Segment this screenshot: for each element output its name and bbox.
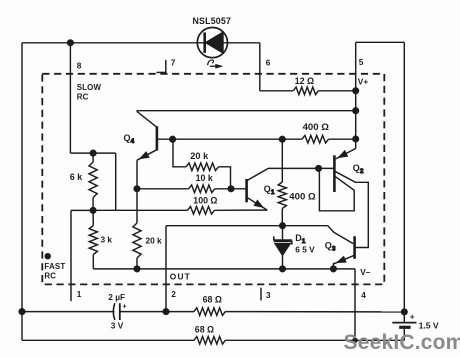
label 12 ohm (295, 76, 314, 86)
node bottom left (19, 309, 25, 315)
wire Q4 base rail (157, 138, 356, 140)
watermark SeekIC.com (344, 331, 460, 354)
svg-text:20 k: 20 k (190, 151, 209, 161)
node Q4 base 20k tap (170, 136, 176, 142)
wire bottom 2 (22, 339, 404, 341)
wire pin8 horizontal (70, 152, 115, 154)
svg-text:100 Ω: 100 Ω (193, 195, 217, 205)
wire top rail (22, 42, 260, 44)
resistor 400 ohm vertical (278, 139, 286, 226)
resistor 20k horizontal (173, 139, 231, 189)
resistor 12 ohm (260, 87, 356, 95)
node D1 top (279, 223, 285, 229)
svg-text:RC: RC (77, 92, 89, 101)
node 400ohm vertical top (279, 136, 285, 142)
label 20k horizontal (190, 151, 209, 161)
label 10k (196, 173, 213, 183)
wire bottom 1 right (225, 311, 404, 313)
transistor Q4 (137, 111, 157, 160)
svg-text:OUT: OUT (170, 271, 191, 281)
svg-text:D1: D1 (295, 233, 306, 245)
label 1.5 V (419, 320, 439, 330)
label 100 ohm (193, 195, 217, 205)
node 6k bottom fast-rc (90, 207, 96, 213)
svg-text:3 k: 3 k (101, 234, 113, 244)
battery 1.5V (392, 312, 416, 340)
node 6k top (90, 150, 96, 156)
wire left rail (21, 43, 23, 341)
svg-text:5: 5 (359, 57, 364, 67)
pin 3 stub (260, 288, 262, 301)
node 20k bottom (134, 266, 140, 272)
label pin 4 (361, 290, 366, 300)
label 6.5 V (295, 244, 315, 254)
svg-text:V+: V+ (358, 77, 369, 87)
label pin 1 (77, 289, 82, 299)
svg-text:3 V: 3 V (111, 320, 124, 330)
wire Q4 collector to V+ (137, 110, 356, 112)
wire Q1 collector to Q2 base (268, 167, 334, 169)
transistor Q1 (247, 169, 268, 211)
label pin 7 (171, 58, 176, 68)
label 6k (70, 172, 84, 182)
wire Q2 collector-1 loop (319, 168, 354, 210)
wire right rail (403, 42, 405, 312)
svg-text:8: 8 (77, 61, 82, 71)
wire bottom 1 mid (120, 311, 194, 313)
svg-text:RC: RC (44, 271, 56, 280)
wire out vertical pin 2 (165, 226, 167, 312)
label D1 (295, 233, 306, 245)
label 400 ohm vertical (289, 191, 316, 202)
svg-text:1: 1 (77, 289, 82, 299)
wire Q2 collector-2 to Q3 collector (335, 171, 368, 247)
label Q3 (325, 241, 336, 253)
resistor 68 ohm upper (194, 308, 225, 316)
resistor 6k (89, 153, 97, 210)
svg-text:SLOW: SLOW (77, 83, 102, 92)
label OUT (170, 271, 191, 281)
svg-text:2 µF: 2 µF (108, 292, 125, 302)
svg-text:SeekIC.com: SeekIC.com (344, 331, 460, 354)
svg-text:6: 6 (266, 58, 271, 68)
transistor Q2 (334, 149, 355, 193)
node 10k tap (134, 186, 140, 192)
svg-text:1.5 V: 1.5 V (419, 320, 439, 330)
label Q4 (124, 133, 135, 145)
label 3k (101, 234, 113, 244)
wire bottom 1 left (22, 311, 114, 313)
wire V- rail (93, 268, 355, 270)
pin 8 wire (69, 43, 71, 153)
node Q3 emitter (330, 266, 336, 272)
svg-text:20 k: 20 k (146, 235, 163, 245)
svg-text:+: + (410, 312, 415, 321)
svg-text:V–: V– (360, 267, 371, 277)
label pin 6 (266, 58, 271, 68)
resistor 100 ohm (93, 207, 267, 215)
node V+ 400ohm (353, 136, 359, 142)
node battery plus (401, 309, 407, 315)
resistor 10k (137, 185, 247, 193)
FAST RC bullet (45, 254, 50, 259)
label NSL5057 (193, 16, 232, 26)
svg-text:68 Ω: 68 Ω (195, 325, 214, 335)
label pin 3 (266, 290, 271, 300)
node Q2 base (316, 165, 322, 171)
svg-text:3: 3 (266, 290, 271, 300)
label 68 ohm upper (203, 295, 222, 305)
node Q1 base (228, 186, 234, 192)
transistor Q3 (328, 226, 355, 269)
wire V+ rail vertical (355, 42, 357, 148)
label 20k vertical (146, 235, 163, 245)
label 68 ohm lower (195, 325, 214, 335)
svg-text:FAST: FAST (44, 262, 65, 271)
wire slow-fast link (115, 153, 117, 210)
node junction top-left pin8 tap (67, 40, 73, 46)
LED light squiggle arrow (208, 60, 222, 68)
node V+ Q4 collector rail (353, 108, 359, 114)
svg-text:NSL5057: NSL5057 (193, 16, 232, 26)
resistor 68 ohm lower (194, 337, 225, 345)
svg-text:68 Ω: 68 Ω (203, 295, 222, 305)
label Q1 (264, 184, 275, 196)
resistor 3k (89, 210, 97, 269)
svg-text:Q3: Q3 (325, 241, 336, 253)
pin 1 wire fast rc (71, 210, 93, 301)
node V+ 12ohm (353, 88, 359, 94)
label pin 5 (359, 57, 364, 67)
svg-text:Q2: Q2 (353, 163, 364, 175)
label FAST RC (44, 262, 65, 281)
wire Q4 emitter drop (136, 160, 138, 223)
node D1 bottom (279, 266, 285, 272)
svg-text:+: + (122, 302, 127, 311)
label V+ (358, 77, 369, 87)
label V- (360, 267, 371, 277)
label pin 2 (171, 289, 176, 299)
dashed IC package outline (42, 74, 384, 285)
resistor 400 ohm top (302, 135, 329, 143)
pin 4 wire (354, 269, 356, 340)
svg-text:Q4: Q4 (124, 133, 135, 145)
svg-text:12 Ω: 12 Ω (295, 76, 314, 86)
svg-text:400 Ω: 400 Ω (289, 191, 316, 202)
label pin 8 (77, 61, 82, 71)
svg-text:2: 2 (171, 289, 176, 299)
pin 7 stub (157, 60, 166, 74)
resistor 20k vertical (133, 223, 141, 269)
svg-text:400 Ω: 400 Ω (303, 122, 330, 133)
svg-text:Q1: Q1 (264, 184, 275, 196)
node out bottom (163, 309, 169, 315)
node pin4 bottom (353, 338, 358, 343)
svg-text:6 k: 6 k (70, 172, 84, 182)
label 3V (111, 320, 124, 330)
svg-text:7: 7 (171, 58, 176, 68)
label 400 ohm top (303, 122, 330, 133)
capacitor 2uF (113, 302, 127, 320)
label 2uF (108, 292, 125, 302)
svg-text:4: 4 (361, 290, 366, 300)
label SLOW RC (77, 83, 102, 102)
wire out node horizontal (166, 225, 328, 227)
svg-text:6 5 V: 6 5 V (295, 244, 315, 254)
LED NSL5057 (197, 27, 227, 57)
wire pin5 to corner (356, 41, 405, 43)
label Q2 (353, 163, 364, 175)
svg-text:10 k: 10 k (196, 173, 213, 183)
wire pin 6 drop (259, 43, 261, 91)
diode D1 zener (274, 226, 292, 269)
